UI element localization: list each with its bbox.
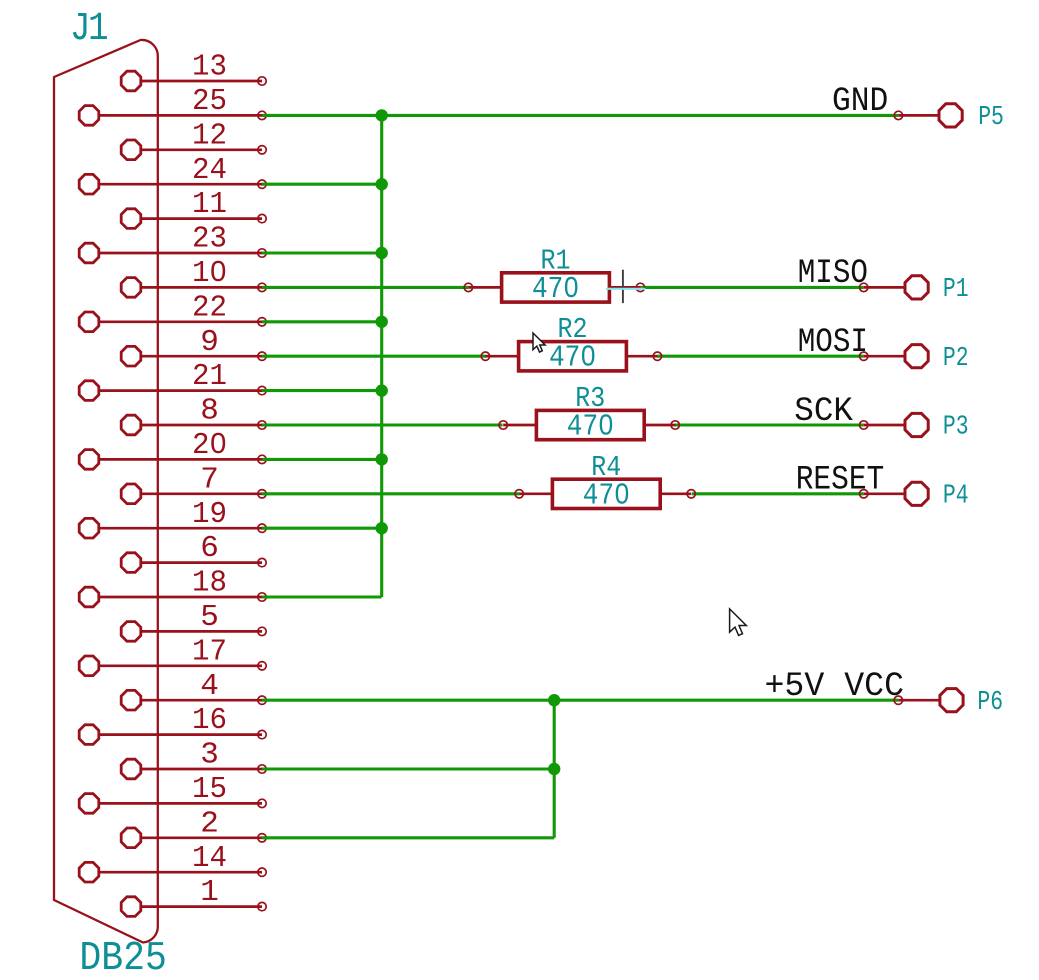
- junction 3: [376, 247, 388, 259]
- svg-text:2: 2: [200, 806, 219, 841]
- wire MISO pin10 to R1: [262, 286, 468, 289]
- junction 8: [548, 694, 560, 706]
- svg-text:15: 15: [192, 772, 227, 807]
- J1 pin 3: [121, 759, 266, 779]
- J1 pin 5: [121, 622, 266, 642]
- junction 6: [376, 453, 388, 465]
- connector pin P2: [860, 345, 929, 368]
- wire pin22 stub to bus: [262, 320, 382, 323]
- J1 pin 17: [79, 656, 266, 676]
- resistor R2: [481, 342, 661, 371]
- J1 pin 23: [79, 243, 266, 263]
- wire RESET pin7 to R4: [262, 492, 519, 495]
- J1 pin 4: [121, 690, 266, 710]
- J1 pin 6: [121, 553, 266, 573]
- wire pin20 stub to bus: [262, 458, 382, 461]
- wire RESET R4 to P4: [692, 492, 864, 495]
- connector pin P6: [894, 689, 963, 712]
- J1 pin 18: [79, 587, 266, 607]
- junction 2: [376, 178, 388, 190]
- J1 pin 1: [121, 897, 266, 917]
- svg-text:14: 14: [192, 841, 227, 876]
- large mouse cursor: [730, 609, 747, 636]
- wire MOSI pin9 to R2: [262, 355, 486, 358]
- wire pin18 stub to bus: [262, 595, 382, 598]
- svg-text:RESET: RESET: [796, 462, 885, 500]
- J1 pin 7: [121, 484, 266, 504]
- zero glyph dot cover 3: [603, 420, 609, 429]
- connector pin P4: [860, 482, 929, 505]
- J1 pin 24: [79, 174, 266, 194]
- J1 pin 20: [79, 450, 266, 470]
- junction 7: [376, 522, 388, 534]
- svg-text:SCK: SCK: [794, 393, 853, 431]
- svg-text:22: 22: [192, 290, 227, 325]
- svg-text:P1: P1: [943, 275, 969, 305]
- svg-text:P5: P5: [978, 103, 1004, 133]
- svg-text:GND: GND: [832, 83, 888, 121]
- wire MISO R1 to P1: [640, 286, 864, 289]
- zero glyph dot cover 4: [619, 488, 625, 497]
- wire SCK pin8 to R3: [262, 423, 503, 426]
- wire pin24 stub to bus: [262, 183, 382, 186]
- wire VCC pin3 stub: [262, 767, 554, 770]
- J1 pin 9: [121, 346, 266, 366]
- svg-text:MISO: MISO: [798, 255, 868, 293]
- small mouse cursor near R2: [533, 333, 545, 352]
- svg-text:J1: J1: [70, 7, 108, 52]
- wire pin23 stub to bus: [262, 251, 382, 254]
- J1 pin 15: [79, 794, 266, 814]
- svg-text:9: 9: [200, 325, 219, 360]
- J1 pin 13: [121, 71, 266, 91]
- J1 pin 12: [121, 140, 266, 160]
- svg-text:4: 4: [200, 669, 219, 704]
- svg-text:23: 23: [192, 222, 227, 257]
- J1 pin 19: [79, 518, 266, 538]
- wire MOSI R2 to P2: [657, 355, 864, 358]
- J1 pin 14: [79, 862, 266, 882]
- svg-text:DB25: DB25: [79, 936, 166, 980]
- junction 4: [376, 316, 388, 328]
- connector pin P1: [860, 276, 929, 299]
- J1 pin 25: [79, 106, 266, 126]
- junction 5: [376, 384, 388, 396]
- connector pin P3: [860, 413, 929, 436]
- svg-text:11: 11: [192, 187, 227, 222]
- svg-text:+5V VCC: +5V VCC: [765, 668, 905, 706]
- resistor R1: [464, 273, 644, 302]
- svg-text:5: 5: [200, 600, 219, 635]
- highlighted wire stub: [606, 288, 645, 290]
- svg-text:6: 6: [200, 531, 219, 566]
- svg-text:10: 10: [192, 256, 227, 291]
- svg-text:16: 16: [192, 703, 227, 738]
- connector J1 outline: [54, 40, 158, 943]
- wire pin21 stub to bus: [262, 389, 382, 392]
- svg-text:MOSI: MOSI: [798, 324, 868, 362]
- wire SCK R3 to P3: [675, 423, 864, 426]
- svg-text:8: 8: [200, 394, 219, 429]
- svg-text:12: 12: [192, 118, 227, 153]
- svg-text:17: 17: [192, 634, 227, 669]
- svg-text:3: 3: [200, 738, 219, 773]
- J1 pin 21: [79, 381, 266, 401]
- J1 pin 16: [79, 725, 266, 745]
- svg-text:21: 21: [192, 359, 227, 394]
- zero glyph dot cover 6: [215, 437, 221, 446]
- J1 pin 11: [121, 209, 266, 229]
- connector pin P5: [894, 104, 962, 127]
- junction 9: [548, 763, 560, 775]
- J1 pin 22: [79, 312, 266, 332]
- svg-text:7: 7: [200, 462, 219, 497]
- wire VCC vertical: [553, 700, 556, 838]
- wire GND bus vertical: [380, 115, 383, 597]
- wire GND net pin25 to P5: [262, 114, 898, 117]
- svg-text:1: 1: [200, 875, 219, 910]
- wire VCC pin4 to P6: [262, 699, 898, 702]
- svg-text:18: 18: [192, 566, 227, 601]
- J1 pin 2: [121, 828, 266, 848]
- junction 1: [376, 109, 388, 121]
- J1 pin 10: [121, 278, 266, 298]
- resistor R4: [515, 479, 695, 508]
- svg-text:13: 13: [192, 50, 227, 85]
- wire VCC pin2 stub: [262, 836, 554, 839]
- edit caret at R1 right pin: [622, 270, 624, 303]
- wire pin19 stub to bus: [262, 527, 382, 530]
- svg-text:P2: P2: [943, 344, 969, 374]
- svg-text:24: 24: [192, 153, 227, 188]
- resistor R3: [499, 410, 679, 439]
- zero glyph dot cover 1: [568, 282, 574, 291]
- svg-text:P4: P4: [943, 481, 969, 511]
- svg-text:P3: P3: [943, 413, 969, 443]
- J1 pin 8: [121, 415, 266, 435]
- svg-text:19: 19: [192, 497, 227, 532]
- zero glyph dot cover 2: [585, 351, 591, 360]
- svg-text:20: 20: [192, 428, 227, 463]
- zero glyph dot cover 5: [215, 265, 221, 274]
- svg-text:25: 25: [192, 84, 227, 119]
- svg-text:P6: P6: [977, 688, 1003, 718]
